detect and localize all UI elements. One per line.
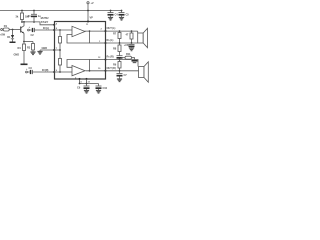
svg-text:GND: GND xyxy=(14,53,20,57)
wire: A1 +in internal xyxy=(55,29,73,31)
ground: under C9 xyxy=(84,91,89,94)
svg-text:VP: VP xyxy=(90,16,94,20)
node: bottom junction xyxy=(86,83,88,85)
svg-text:+V: +V xyxy=(91,1,94,5)
svg-text:47: 47 xyxy=(126,33,129,37)
wire: R1 bottom lead xyxy=(21,20,23,23)
pin blob: OUT(R) xyxy=(104,70,106,72)
capacitor C5 plates xyxy=(119,12,125,14)
resistor R8 xyxy=(118,45,121,52)
node: C1 bottom junction xyxy=(33,21,35,23)
svg-text:OUT (L): OUT (L) xyxy=(107,26,116,30)
transistor Q1 emitter xyxy=(21,31,24,33)
svg-text:R8: R8 xyxy=(113,47,117,51)
capacitor C10 lead xyxy=(98,84,100,86)
wire: R4 bottom lead xyxy=(23,51,25,64)
wire: bottom pin 1 stub xyxy=(80,79,99,84)
wire: OUT(L) bend to speaker xyxy=(137,31,139,33)
resistor R9 xyxy=(118,62,121,69)
node: bias chain top xyxy=(59,29,61,31)
node: bias chain bottom xyxy=(59,71,61,73)
node: chain on Rs(R) xyxy=(119,59,121,61)
wire: +V supply rail xyxy=(0,10,122,12)
resistor R7 xyxy=(118,33,121,39)
wire: A2 -in feedback xyxy=(67,60,90,71)
wire: to C2 xyxy=(30,29,32,31)
svg-text:10: 10 xyxy=(98,68,101,70)
wire: R8 bottom lead xyxy=(119,52,121,56)
resistor R3 xyxy=(32,44,35,51)
node: bottom pin A joint xyxy=(79,83,81,85)
node: zobel2 on Rs(L) xyxy=(131,42,133,44)
transistor Q1 base bar xyxy=(20,27,22,33)
ground: under R11 xyxy=(132,60,138,62)
pin blob: VP xyxy=(87,20,89,22)
wire: lead xyxy=(131,31,133,33)
wire: R3 top lead xyxy=(32,42,34,44)
svg-text:+SW: +SW xyxy=(0,34,6,37)
capacitor C9 plates xyxy=(84,85,90,87)
node: zobel chain top xyxy=(119,30,121,32)
resistor R2 xyxy=(3,28,9,31)
capacitor C9 lead xyxy=(86,84,88,86)
svg-text:Rs (R): Rs (R) xyxy=(107,55,114,59)
ground: under C7 xyxy=(117,79,122,82)
wire: A2 output xyxy=(86,70,106,72)
wire: A2 +in internal xyxy=(55,71,73,73)
svg-text:GND: GND xyxy=(42,46,48,50)
svg-text:8: 8 xyxy=(56,28,58,30)
svg-text:R4: R4 xyxy=(18,46,22,50)
node: R1 bottom junction xyxy=(21,21,23,23)
svg-text:C7: C7 xyxy=(124,73,128,77)
ground: bar under emitter chain xyxy=(21,64,28,66)
svg-text:C1: C1 xyxy=(28,14,32,18)
speaker SP2 xyxy=(139,67,145,78)
op-amp U1 IC box xyxy=(55,22,106,80)
capacitor C5 bottom lead xyxy=(121,16,123,18)
resistor R6 (internal) xyxy=(59,59,62,66)
capacitor C9 bottom lead xyxy=(86,89,88,90)
wire: branch to R3 xyxy=(24,41,33,43)
diode D1 xyxy=(11,35,14,39)
wire: A1 output xyxy=(85,30,106,32)
wire: R7 bottom lead xyxy=(119,39,121,44)
svg-text:12: 12 xyxy=(98,57,101,59)
wire: Rs(R) xyxy=(106,60,139,67)
ground: under D1 xyxy=(10,42,16,44)
svg-text:+C8: +C8 xyxy=(124,43,129,47)
wire: chain lead xyxy=(119,31,121,32)
wire: fb out to pin xyxy=(90,42,106,44)
node: C1 top junction xyxy=(33,10,35,12)
wire: R11 right lead xyxy=(132,58,135,60)
capacitor C2 (input L) xyxy=(32,28,34,32)
resistor R5 (internal) xyxy=(59,37,62,44)
node: bias chain mid xyxy=(59,49,61,51)
capacitor C5 lead xyxy=(121,11,123,13)
svg-text:R1: R1 xyxy=(4,24,8,28)
svg-text:R9: R9 xyxy=(113,62,117,66)
node: +V rail junction xyxy=(87,10,89,12)
wire: R9 bottom lead xyxy=(119,68,121,73)
wire: A2 fb to pin xyxy=(90,59,106,61)
wire: base wire xyxy=(9,29,20,31)
resistor R10 xyxy=(130,33,133,39)
svg-text:C2: C2 xyxy=(31,33,35,37)
pin blob: bottom B xyxy=(86,78,88,80)
node: C4 junction xyxy=(110,10,112,12)
ground: under C10 xyxy=(96,91,101,94)
pin blob: GND xyxy=(53,49,55,51)
capacitor C6 plates xyxy=(117,55,123,57)
svg-text:C9: C9 xyxy=(77,85,81,89)
svg-text:C3: C3 xyxy=(29,66,33,70)
node: chain on Rs(L) xyxy=(119,42,121,44)
svg-text:R7: R7 xyxy=(113,32,117,36)
node: collector junction xyxy=(23,21,25,23)
pin blob: bottom A xyxy=(79,78,81,80)
ground: under R3 xyxy=(30,52,35,55)
wire: bias chain lower xyxy=(59,65,61,72)
wire: R1 top lead xyxy=(21,11,23,14)
ground: under C8 xyxy=(129,48,134,51)
terminal: SW input xyxy=(1,29,3,31)
node: C5 junction xyxy=(121,10,123,12)
svg-text:MUTE/: MUTE/ xyxy=(41,16,49,20)
node: emitter branch xyxy=(23,41,25,43)
ground: under C5 xyxy=(119,17,124,20)
terminal: IN(L) input xyxy=(28,29,30,31)
pin blob: RsR xyxy=(104,58,106,60)
capacitor C10 plates xyxy=(96,85,102,87)
pin blob: RsL xyxy=(104,42,106,44)
svg-text:C4: C4 xyxy=(115,13,119,17)
wire: bias chain upper xyxy=(59,30,61,37)
wire: C7 bottom lead xyxy=(119,77,121,79)
transistor Q1 collector xyxy=(21,22,24,28)
wire: switch rail xyxy=(22,22,55,25)
terminal: IN(R) input xyxy=(26,71,28,73)
op-amp A2 (bottom) xyxy=(72,66,85,76)
capacitor C4 lead xyxy=(110,11,112,13)
svg-text:IN (R): IN (R) xyxy=(42,68,49,72)
wire: GND pin wire xyxy=(40,49,60,51)
capacitor C3 (input R) xyxy=(30,70,32,74)
svg-text:D1: D1 xyxy=(7,35,11,39)
node: chain on OUT(R) xyxy=(119,70,121,72)
pin blob: IN(R) xyxy=(53,71,55,73)
capacitor C10 bottom lead xyxy=(98,89,100,90)
wire: OUT(R) xyxy=(106,70,139,72)
svg-text:2: 2 xyxy=(101,28,103,30)
svg-text:R11: R11 xyxy=(126,52,131,56)
wire: C6 to Rs(R) xyxy=(119,58,121,61)
wire: lead xyxy=(119,43,121,45)
capacitor C4 plates xyxy=(108,12,114,14)
wire: R10 bottom lead xyxy=(131,39,133,43)
svg-text:C10: C10 xyxy=(103,86,108,90)
node: zobel2 top xyxy=(131,30,133,32)
wire: R11 left lead xyxy=(121,57,125,59)
wire: Rs(L) xyxy=(106,42,138,44)
wire: C8 bottom lead xyxy=(131,46,133,49)
wire: emitter down xyxy=(23,33,25,44)
wire: +V down to IC xyxy=(87,4,89,22)
wire: IN(R) to IC xyxy=(32,71,54,73)
resistor R11 (horizontal) xyxy=(125,56,132,59)
wire: lead xyxy=(119,60,121,62)
pin blob: OUT(L) xyxy=(104,30,106,32)
pin blob: MUTE/ST-BY xyxy=(53,24,55,26)
capacitor C7 plates xyxy=(117,73,123,75)
svg-text:4: 4 xyxy=(56,22,58,25)
svg-text:OUT (R): OUT (R) xyxy=(107,66,116,70)
diode D1 lead xyxy=(12,30,14,36)
op-amp A1 (top) xyxy=(72,26,85,36)
capacitor C1 top lead xyxy=(33,11,35,15)
svg-text:3k: 3k xyxy=(16,15,19,19)
node: diode junction xyxy=(12,29,14,31)
ground: at GND pin xyxy=(39,50,41,52)
capacitor C1 bottom lead xyxy=(33,17,35,22)
wire: to C3 xyxy=(28,71,30,73)
node: R1 top junction xyxy=(21,10,23,12)
speaker SP1 xyxy=(138,33,144,43)
svg-text:IN (L): IN (L) xyxy=(43,26,49,30)
node: A2 output junction xyxy=(89,70,91,72)
capacitor C1 plates xyxy=(31,13,37,15)
capacitor C4 bottom lead xyxy=(110,16,112,18)
wire: bias chain middle xyxy=(59,43,61,59)
svg-text:+: + xyxy=(29,26,31,29)
svg-text:11: 11 xyxy=(86,24,89,26)
svg-text:C5: C5 xyxy=(126,13,130,17)
svg-text:ST-BY: ST-BY xyxy=(41,20,49,24)
node: A1 output junction xyxy=(89,30,91,32)
diode D1 bottom lead xyxy=(12,39,14,42)
capacitor C8 plates xyxy=(129,43,135,45)
resistor R1 xyxy=(21,13,24,20)
terminal: +V supply xyxy=(87,2,89,4)
wire: IN(L) to IC xyxy=(34,29,54,31)
resistor R4 xyxy=(23,44,26,51)
svg-text:R3: R3 xyxy=(27,46,31,50)
wire: A1 -in feedback xyxy=(67,32,90,44)
wire: OUT(L) xyxy=(106,30,138,32)
ground: under C4 xyxy=(108,17,113,20)
svg-text:Rs (L): Rs (L) xyxy=(107,38,114,42)
wire: bottom pin 2 stub xyxy=(86,79,88,84)
pin blob: IN(L) xyxy=(53,29,55,31)
wire: R3 bottom lead xyxy=(32,50,34,52)
